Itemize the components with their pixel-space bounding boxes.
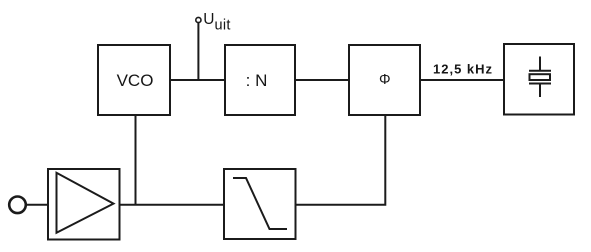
wire VCO feedback down to node <box>135 115 137 205</box>
block VCO <box>98 45 170 115</box>
svg-text:VCO: VCO <box>117 71 154 90</box>
svg-text:Φ: Φ <box>379 72 391 88</box>
wire amplifier to filter <box>120 204 225 206</box>
block divider :N <box>225 45 295 115</box>
wire Uuit stub <box>197 23 199 81</box>
block crystal oscillator <box>504 44 574 115</box>
wire phase detector to crystal oscillator <box>420 79 504 81</box>
svg-text:12,5 kHz: 12,5 kHz <box>433 62 493 77</box>
svg-text:: N: : N <box>246 71 268 90</box>
wire phase detector output down to filter <box>296 115 386 205</box>
wire input to amplifier <box>27 204 49 206</box>
terminal Uuit <box>196 17 201 22</box>
crystal X1 symbol <box>529 57 551 98</box>
input terminal <box>9 197 26 214</box>
wire divider to phase detector <box>295 79 349 81</box>
block phase detector U2 <box>349 45 420 115</box>
block amplifier A1 <box>48 169 120 240</box>
svg-text:Uuit: Uuit <box>203 11 230 34</box>
wire VCO output to divider <box>170 79 225 81</box>
block low-pass filter <box>224 169 296 239</box>
